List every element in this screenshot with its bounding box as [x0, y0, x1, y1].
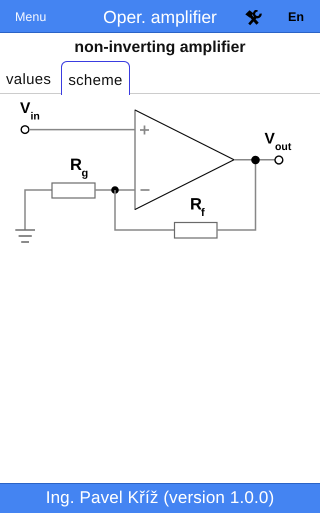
resistor Rg	[52, 183, 95, 198]
input terminal circle	[21, 126, 29, 134]
footer bar	[0, 483, 320, 513]
wire: node A down and to Rf	[115, 190, 175, 230]
label Rf	[190, 196, 205, 220]
menu button label	[15, 0, 46, 33]
tools icon (hammer and wrench)	[245, 10, 262, 26]
wire: op-amp output to Vout terminal	[234, 159, 275, 161]
resistor Rf	[175, 223, 218, 239]
tab underline rule right segment	[130, 93, 320, 94]
node A junction dot	[111, 186, 119, 194]
top app bar	[0, 0, 320, 33]
svg-text:f: f	[201, 207, 205, 219]
label Vin	[20, 100, 40, 123]
op-amp plus input marker	[140, 126, 149, 135]
tab: values	[6, 71, 51, 88]
svg-text:V: V	[265, 131, 276, 148]
svg-text:in: in	[31, 111, 40, 123]
svg-text:V: V	[20, 100, 31, 117]
label Vout	[265, 131, 292, 154]
node B junction dot	[251, 156, 260, 165]
svg-text:g: g	[82, 168, 89, 180]
op-amp minus input marker	[141, 189, 150, 191]
ground	[15, 230, 35, 242]
wire: Vin to op-amp + input	[29, 129, 135, 131]
page subtitle	[0, 39, 320, 57]
wire: Rf to output node	[217, 160, 256, 230]
output terminal circle	[275, 156, 283, 164]
svg-text:R: R	[70, 156, 82, 174]
language label En	[288, 0, 304, 33]
wire: ground corner to Rg	[25, 190, 52, 230]
wire: Rg to op-amp - input	[95, 189, 135, 191]
tab: scheme (selected)	[61, 61, 130, 95]
label Rg	[70, 156, 88, 180]
op-amp U1	[135, 110, 234, 210]
tab underline rule	[0, 93, 61, 94]
svg-text:out: out	[275, 141, 292, 153]
footer text	[0, 483, 320, 512]
app title	[0, 0, 320, 33]
